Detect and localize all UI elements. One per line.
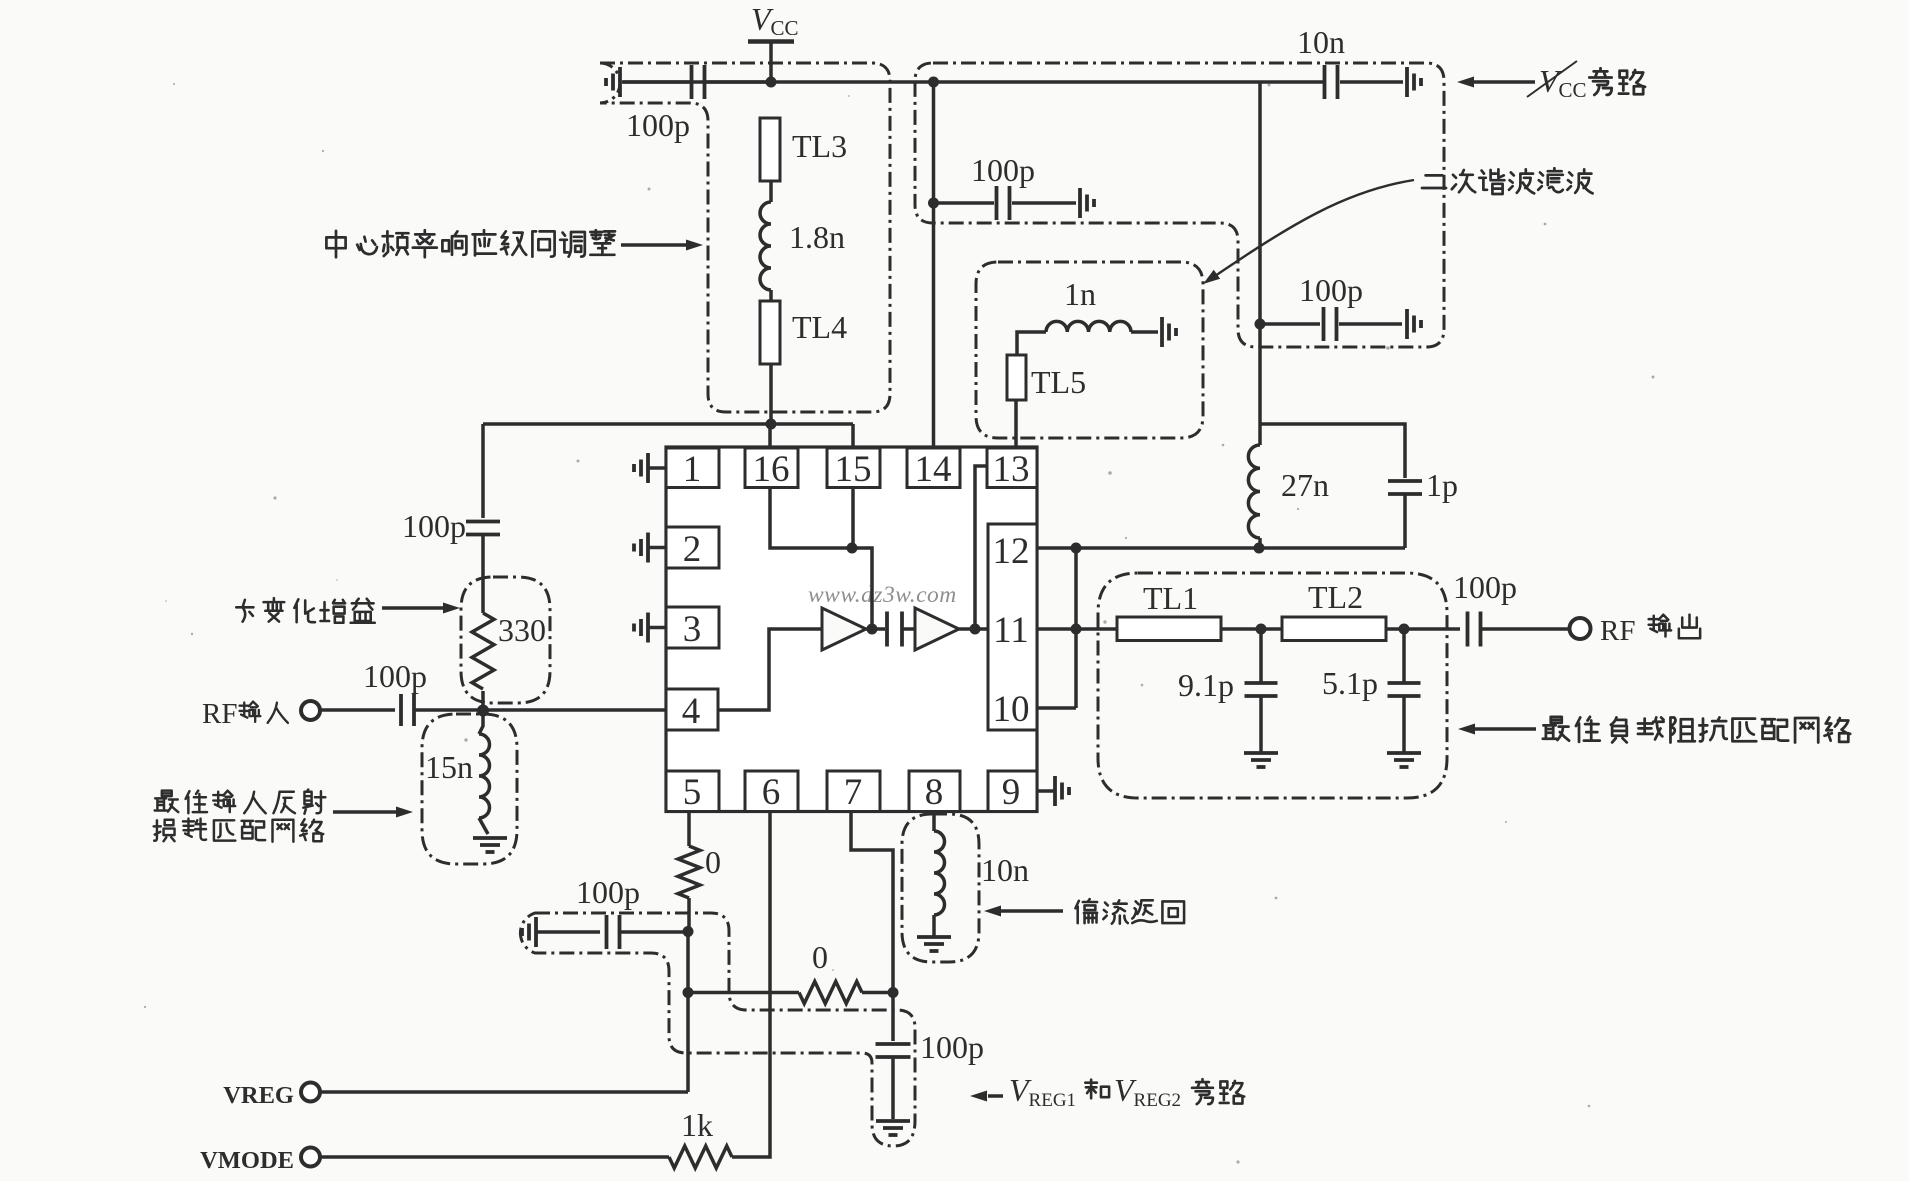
svg-text:12: 12 xyxy=(993,531,1030,572)
ground (pin 3) xyxy=(649,626,666,630)
wire: R330 to input node xyxy=(481,691,485,710)
capacitor C 100p (pin5 bypass) xyxy=(605,915,609,949)
wire: node down to VREG xyxy=(686,931,690,1092)
capacitor C 1p xyxy=(1388,479,1422,483)
wire: VCC drop to rail xyxy=(769,42,773,83)
wire: node down to pin 15 xyxy=(851,424,855,447)
wire: interstage node horizontal xyxy=(483,422,853,426)
wire: 1k up to pin 6 xyxy=(732,812,770,1158)
wire: pin 10 link xyxy=(1037,706,1076,710)
IC pin 15 xyxy=(827,448,880,488)
label: and (CJK) xyxy=(1085,1080,1109,1099)
ground (pin 9) xyxy=(1037,789,1054,793)
svg-text:VREG: VREG xyxy=(223,1082,294,1109)
IC pin 6 xyxy=(745,771,798,812)
transmission line TL3 xyxy=(760,118,780,181)
pointer: second harmonic filter xyxy=(1212,180,1414,278)
inductor L 10n (bias return) xyxy=(932,812,936,832)
svg-text:27n: 27n xyxy=(1281,467,1329,503)
transmission line TL4 xyxy=(760,301,780,364)
IC pins 10-12 block xyxy=(988,524,1037,730)
junction: amp2 output / pin13 link xyxy=(970,624,981,635)
wire: R0 to pin7 node xyxy=(862,991,893,995)
inductor 27n xyxy=(1248,445,1260,538)
wire: node up to pin 7 xyxy=(851,812,893,993)
svg-text:9: 9 xyxy=(1002,772,1021,813)
svg-text:RF: RF xyxy=(202,698,237,730)
junction: TL1/TL2 node xyxy=(1256,624,1267,635)
wire: 100p to R330 xyxy=(481,535,485,613)
IC pin 4 xyxy=(666,689,718,730)
label: bypass (CJK) xyxy=(1589,68,1611,95)
arrow: gain variation xyxy=(382,606,444,610)
wire: VREG to node xyxy=(320,1090,688,1094)
IC pin 9 xyxy=(988,771,1037,812)
capacitor C 100p (RF input) xyxy=(399,694,403,726)
RF input terminal xyxy=(301,701,320,720)
wire: pin 12 net xyxy=(1037,546,1405,550)
svg-text:100p: 100p xyxy=(1299,272,1363,308)
svg-text:1n: 1n xyxy=(1064,276,1096,312)
arrow: load match xyxy=(1474,727,1536,731)
svg-text:5.1p: 5.1p xyxy=(1322,665,1378,701)
wire: 100p to RF out terminal xyxy=(1481,627,1570,631)
IC pin 14 xyxy=(907,448,960,488)
svg-text:1.8n: 1.8n xyxy=(789,219,845,255)
ground (10n) xyxy=(917,935,951,939)
dash-dot outline: VREG1/VREG2 bypass corridor and 100p box xyxy=(520,913,915,1146)
svg-text:13: 13 xyxy=(993,449,1030,490)
dash-dot box: optimum load impedance matching network (TL1/TL2) xyxy=(1098,573,1447,798)
transmission line TL1 xyxy=(1117,617,1221,641)
junction: lower-right 100p tap xyxy=(1255,319,1266,330)
svg-text:6: 6 xyxy=(762,772,781,813)
capacitor C 9.1p xyxy=(1259,629,1263,682)
IC U1 body (16-pin) xyxy=(666,447,1037,812)
ground (15n) xyxy=(473,836,507,840)
wire: TL1 to TL2 xyxy=(1221,627,1282,631)
junction: pin11 tie xyxy=(1071,624,1082,635)
label: optimum input return (line 1) xyxy=(155,791,179,812)
wire: pin15 internal drop xyxy=(851,488,855,549)
junction: VCC rail / pin 14 branch xyxy=(928,77,939,88)
transmission line TL5 xyxy=(1007,355,1026,400)
dash-dot box: second harmonic filter (1n/TL5) xyxy=(976,262,1203,438)
svg-text:TL5: TL5 xyxy=(1031,364,1086,400)
capacitor C 100p (interstage left) xyxy=(466,520,500,524)
wire: 100p to ground xyxy=(891,1057,895,1119)
dash-dot box: bias return 10n xyxy=(902,814,979,962)
amplifier A1 (first stage) xyxy=(822,608,866,650)
wire: RF in to 100p xyxy=(320,708,395,712)
inductor 1.8n xyxy=(760,202,771,290)
junction: VCC rail / TL3 chain xyxy=(766,77,777,88)
junction: pin12/pin10-11 tie xyxy=(1071,543,1082,554)
svg-text:VMODE: VMODE xyxy=(200,1147,294,1174)
svg-text:7: 7 xyxy=(844,772,863,813)
svg-text:1k: 1k xyxy=(681,1107,713,1143)
svg-text:8: 8 xyxy=(925,772,944,813)
arrow: input match xyxy=(333,810,396,814)
svg-text:100p: 100p xyxy=(402,508,466,544)
svg-text:10: 10 xyxy=(993,689,1030,730)
svg-text:15: 15 xyxy=(835,449,872,490)
IC pin 7 xyxy=(827,771,880,812)
wire: 1p down to pin12 net xyxy=(1403,494,1407,548)
label: bypass (CJK) xyxy=(1192,1079,1213,1104)
svg-text:100p: 100p xyxy=(920,1029,984,1065)
ground (1n right) xyxy=(1160,317,1164,347)
capacitor C 100p (VCC bypass, top-left) xyxy=(690,65,694,99)
dash-dot box: gain-variation resistor 330 xyxy=(461,577,550,703)
svg-text:www.dz3w.com: www.dz3w.com xyxy=(808,582,957,608)
wire: 27n to pin12 net xyxy=(1258,538,1262,548)
arrow: interstage adjust xyxy=(621,243,687,247)
junction: TL2 output node xyxy=(1399,624,1410,635)
dash-dot box: VCC bypass network (top right) xyxy=(915,63,1444,347)
svg-text:5: 5 xyxy=(683,772,702,813)
svg-text:1: 1 xyxy=(683,449,702,490)
capacitor C 100p (VREG1/2 bypass) xyxy=(876,1042,911,1046)
wire: 100p to pin 4 xyxy=(414,708,666,712)
wire: TL4 down to node xyxy=(769,364,773,424)
junction: tank bottom xyxy=(1254,543,1265,554)
amplifier A2 (second stage) xyxy=(915,608,959,650)
svg-text:0: 0 xyxy=(705,844,721,880)
label: for gain variation xyxy=(236,600,253,622)
resistor R 330 xyxy=(472,613,494,689)
svg-text:9.1p: 9.1p xyxy=(1178,667,1234,703)
wire: pin 4 to amp1 input xyxy=(718,629,822,710)
wire: internal node to amp1 output xyxy=(852,548,872,629)
junction: amp1 output xyxy=(867,624,878,635)
wire: node to R0 horizontal xyxy=(688,991,799,995)
svg-text:14: 14 xyxy=(915,449,952,490)
junction: 100p bypass tap xyxy=(928,198,939,209)
svg-text:100p: 100p xyxy=(971,152,1035,188)
svg-text:10n: 10n xyxy=(981,852,1029,888)
wire: amp2 output up to pin 13 xyxy=(975,466,987,629)
wire: TL3 to 1.8n xyxy=(769,181,773,202)
svg-text:3: 3 xyxy=(683,609,702,650)
svg-text:100p: 100p xyxy=(626,107,690,143)
label: optimum load impedance matching network xyxy=(1543,717,1569,741)
inductor 1n xyxy=(1046,321,1131,332)
wire: VMODE to 1k xyxy=(320,1155,669,1159)
svg-text:0: 0 xyxy=(812,939,828,975)
wire: node down to 100p xyxy=(891,993,895,1042)
ground (left end of VCC bypass arm) xyxy=(618,67,622,97)
svg-text:RF: RF xyxy=(1600,615,1635,647)
inductor L 15n xyxy=(479,734,490,818)
svg-text:TL2: TL2 xyxy=(1308,579,1363,615)
capacitor C 10n (VCC bypass, top) xyxy=(1323,65,1327,99)
ground (pin 2) xyxy=(649,546,666,550)
svg-text:TL1: TL1 xyxy=(1143,580,1198,616)
svg-text:10n: 10n xyxy=(1297,24,1345,60)
transmission line TL2 xyxy=(1282,617,1386,641)
ground (VREG bypass) xyxy=(876,1119,910,1123)
dash-dot box: interstage tuning network (TL3/1.8n/TL4) with VCC bypass arm xyxy=(600,63,890,412)
arrow: bias return xyxy=(1000,909,1063,913)
wire: pin 5 down xyxy=(687,811,691,846)
svg-text:1p: 1p xyxy=(1426,467,1458,503)
svg-text:11: 11 xyxy=(993,610,1029,651)
capacitor C 5.1p xyxy=(1402,629,1406,682)
resistor R 0 (pin 5) xyxy=(678,846,700,898)
IC pin 16 xyxy=(745,448,798,488)
IC pin 5 xyxy=(666,771,719,812)
capacitor C (interstage, internal) xyxy=(885,612,889,647)
ground (9.1p) xyxy=(1244,751,1278,755)
svg-text:100p: 100p xyxy=(1453,569,1517,605)
resistor R 1k xyxy=(669,1146,732,1168)
wire: TL5 down to pin 13 xyxy=(1014,400,1018,447)
svg-text:4: 4 xyxy=(682,691,701,732)
wire: R0 to node xyxy=(687,898,691,931)
label: center frequency response interstage adjust xyxy=(326,231,345,257)
wire: 15n to ground xyxy=(479,818,488,834)
VMODE terminal xyxy=(301,1148,320,1167)
svg-text:330: 330 xyxy=(498,612,546,648)
resistor R 0 (row) xyxy=(799,982,862,1004)
label: bias return xyxy=(1075,899,1097,923)
junction: pin5 node / 100p xyxy=(683,926,694,937)
wire: 1n left to TL5 xyxy=(1017,332,1046,355)
wire: rail branch down to 27n/1p tank xyxy=(1258,82,1262,445)
svg-text:2: 2 xyxy=(683,529,702,570)
wire: node down to pin 16 xyxy=(768,424,772,448)
RF output terminal xyxy=(1570,618,1591,639)
junction: VREG node / R0 row xyxy=(683,987,694,998)
junction: pin7 node / 100p drop xyxy=(888,987,899,998)
arrow: VCC bypass xyxy=(1473,80,1535,84)
IC pin 1 xyxy=(666,448,719,488)
capacitor C 100p (RF output) xyxy=(1466,612,1470,647)
label: RF input (CJK) xyxy=(240,702,261,722)
IC pin 13 xyxy=(987,448,1037,488)
svg-text:100p: 100p xyxy=(363,658,427,694)
capacitor C 100p (bypass, in box lower right) xyxy=(1262,322,1320,326)
junction: pin15/pin16 internal xyxy=(847,543,858,554)
svg-text:15n: 15n xyxy=(425,749,473,785)
VREG terminal xyxy=(301,1083,320,1102)
wire: node to 15n xyxy=(479,710,483,734)
wire: rail down to pin 14 xyxy=(932,82,936,447)
ground (VREG bypass cap, left) xyxy=(534,917,538,947)
label: second harmonic filter xyxy=(1422,175,1446,188)
wire: pin 11 to TL1 xyxy=(1037,627,1117,631)
dash-dot box: input match 15n xyxy=(422,714,517,864)
label: loss matching network (line 2) xyxy=(154,820,175,841)
arrow: VREG bypass xyxy=(988,1094,1003,1098)
label: RF output (CJK) xyxy=(1649,615,1671,637)
IC pin 2 xyxy=(666,527,719,568)
wire: tank top link to 1p xyxy=(1260,424,1405,478)
ground (pin 1) xyxy=(649,466,666,470)
svg-text:TL4: TL4 xyxy=(792,309,847,345)
svg-text:100p: 100p xyxy=(576,874,640,910)
wire: 1.8n to TL4 xyxy=(769,290,773,301)
svg-text:16: 16 xyxy=(753,449,790,490)
junction: input node xyxy=(477,705,489,717)
capacitor C 100p (bypass, in box left) xyxy=(936,201,994,205)
wire: TL2 to output cap xyxy=(1386,627,1460,631)
wire: VCC rail xyxy=(623,80,1325,84)
junction: TL4 / node wire xyxy=(766,419,777,430)
ground (5.1p) xyxy=(1387,751,1421,755)
wire: node down to 100p xyxy=(481,424,485,518)
IC pin 3 xyxy=(666,607,719,648)
wire: pin12 tie vertical xyxy=(1074,548,1078,708)
svg-text:TL3: TL3 xyxy=(792,128,847,164)
wire: pin16 internal link xyxy=(770,488,851,549)
IC pin 8 xyxy=(909,771,960,812)
